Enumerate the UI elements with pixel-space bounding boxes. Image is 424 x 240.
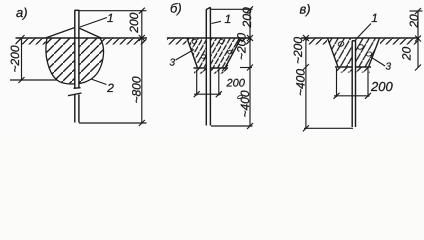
break symbol on pole [68,88,82,96]
ground hatch v [307,39,328,45]
svg-text:200: 200 [370,79,393,94]
svg-text:~200: ~200 [8,45,22,72]
pole v (white core) [352,41,355,127]
ground hatch right [101,39,147,45]
svg-text:200: 200 [240,7,254,28]
pit (hatched trapezoid) [187,38,241,68]
svg-text:~400: ~400 [238,90,252,117]
ground line v [301,37,419,39]
leader 2 [91,79,107,85]
right dim col b [211,6,254,129]
svg-text:1: 1 [225,12,232,26]
svg-text:б): б) [170,1,182,16]
pit v (hatched trapezoid) [328,38,380,67]
leader 1 b [212,21,222,23]
left dim col v [303,35,353,131]
right dim col v 20/20 [410,8,423,71]
hatch below pit bottom [194,69,228,74]
svg-text:в): в) [300,2,311,17]
ground hatch left [16,39,46,45]
svg-text:~200: ~200 [291,37,305,64]
svg-text:200: 200 [226,78,246,90]
pole (white core) [207,8,211,125]
gravel circles v [338,41,373,57]
gravel circles [192,39,243,99]
svg-text:1: 1 [371,11,378,25]
svg-text:~800: ~800 [129,76,143,103]
bottom dim 200 v [334,68,372,99]
ground hatch [167,39,187,45]
leader 1 [80,18,107,28]
svg-text:20: 20 [407,14,421,29]
leader 3 v [372,58,386,67]
left dim ~200 [10,35,57,83]
leader 1 v [356,24,371,40]
svg-text:а): а) [16,5,28,20]
svg-text:~400: ~400 [293,69,307,96]
svg-text:200: 200 [127,12,141,33]
svg-text:~200: ~200 [234,33,248,60]
svg-text:1: 1 [107,11,114,25]
pole 1 (white core over hatch) [75,10,79,122]
hatch below pit bottom v [336,68,370,73]
svg-text:3: 3 [170,58,176,69]
ground line a [16,37,148,39]
bottom dim 200 b [194,65,228,97]
svg-text:3: 3 [386,62,392,73]
concrete blob 2 (hatched) [46,38,104,84]
tent braces [46,28,102,39]
right dim col [79,8,147,126]
ground line b [167,37,251,39]
leader 3 b [176,50,195,61]
svg-text:20: 20 [400,47,414,62]
svg-text:2: 2 [106,81,114,95]
